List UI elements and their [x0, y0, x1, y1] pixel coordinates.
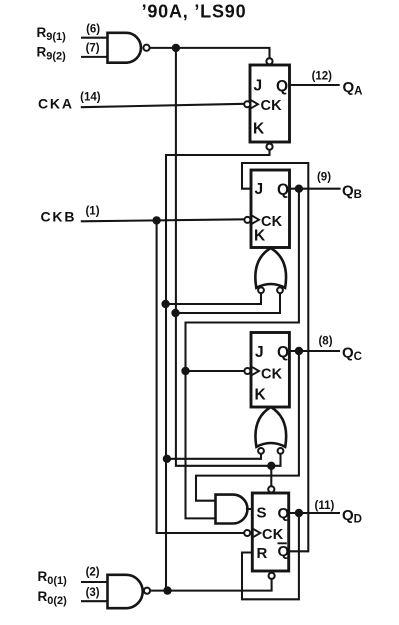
svg-text:K: K: [255, 387, 267, 404]
svg-text:R9(2): R9(2): [37, 44, 67, 62]
svg-text:J: J: [254, 78, 263, 95]
svg-text:Q: Q: [276, 78, 288, 95]
svg-text:(11): (11): [314, 500, 334, 512]
svg-text:CKB: CKB: [41, 209, 77, 225]
svg-text:QD: QD: [342, 507, 362, 526]
svg-text:Q: Q: [278, 543, 290, 560]
svg-text:’90A, ’LS90: ’90A, ’LS90: [142, 2, 247, 22]
svg-text:R0(2): R0(2): [38, 589, 68, 607]
svg-text:(1): (1): [85, 205, 99, 217]
svg-text:J: J: [255, 181, 264, 198]
svg-text:Q: Q: [278, 505, 290, 522]
svg-text:K: K: [253, 121, 265, 138]
svg-text:CK: CK: [261, 98, 283, 114]
svg-text:CKA: CKA: [38, 95, 74, 111]
svg-text:(6): (6): [86, 24, 100, 36]
svg-text:QB: QB: [342, 183, 362, 202]
svg-text:(2): (2): [86, 567, 100, 579]
svg-text:(12): (12): [312, 71, 333, 83]
svg-text:Q: Q: [277, 182, 289, 199]
svg-text:R9(1): R9(1): [37, 25, 67, 43]
svg-text:R: R: [257, 545, 268, 562]
svg-text:(3): (3): [86, 587, 100, 599]
svg-text:J: J: [255, 344, 264, 361]
svg-text:QC: QC: [342, 345, 362, 364]
svg-text:CK: CK: [262, 527, 284, 543]
svg-text:CK: CK: [261, 367, 283, 383]
svg-text:(8): (8): [318, 336, 332, 348]
svg-text:(9): (9): [317, 171, 331, 183]
svg-text:R0(1): R0(1): [38, 569, 68, 587]
svg-text:(14): (14): [80, 91, 101, 103]
svg-text:K: K: [254, 228, 266, 245]
svg-text:QA: QA: [343, 79, 363, 98]
svg-text:Q: Q: [277, 344, 289, 361]
svg-text:(7): (7): [86, 43, 100, 55]
svg-text:S: S: [257, 505, 267, 522]
